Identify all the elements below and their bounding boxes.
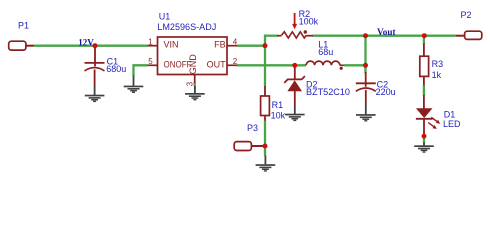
- svg-text:LED: LED: [443, 119, 461, 129]
- U1 pin 1 VIN: [148, 45, 158, 47]
- U1 pin 3 GND: [194, 75, 196, 83]
- wire ONOFF to gnd: [134, 65, 148, 76]
- wire R1 to P3 node: [264, 120, 266, 156]
- svg-text:3: 3: [185, 81, 194, 86]
- svg-text:R1: R1: [272, 100, 284, 110]
- IC U1 LM2596S-ADJ body: [158, 37, 228, 75]
- capacitor C1 680u: [85, 46, 127, 85]
- svg-text:LM2596S-ADJ: LM2596S-ADJ: [157, 22, 216, 32]
- U1 pin 2 OUT: [227, 64, 237, 66]
- LED arrows: [431, 117, 437, 121]
- wire FB node top corner to R2: [264, 35, 278, 37]
- svg-text:U1: U1: [159, 11, 171, 21]
- ground (C1): [94, 85, 96, 95]
- svg-text:220u: 220u: [376, 87, 396, 97]
- resistor R2 100k (trimmer): [277, 9, 319, 38]
- wire FB node vertical down to R1: [264, 35, 266, 87]
- svg-text:OUT: OUT: [207, 60, 227, 70]
- svg-text:Vout: Vout: [377, 27, 396, 37]
- capacitor C2 220u: [356, 72, 396, 104]
- svg-text:68u: 68u: [318, 47, 333, 57]
- node D1-gnd junction: [422, 134, 427, 139]
- wire Vout node down to R3: [423, 36, 425, 45]
- ground (D1): [423, 143, 425, 146]
- port P3: [234, 123, 263, 151]
- wire 12V rail P1 to VIN: [34, 45, 148, 47]
- svg-text:P3: P3: [247, 123, 258, 133]
- svg-text:1k: 1k: [432, 70, 442, 80]
- port P2: [456, 10, 482, 39]
- node Vout-L junction: [363, 33, 368, 38]
- U1 pin 4 FB: [227, 45, 237, 47]
- wire U1 pin3 to gnd: [194, 82, 196, 86]
- svg-text:GND: GND: [188, 54, 198, 75]
- node P3 junction: [263, 144, 268, 149]
- ground (U1 pin3): [194, 86, 196, 93]
- svg-text:D1: D1: [444, 109, 456, 119]
- node OUT-D2 junction: [292, 63, 297, 68]
- ground (D2): [294, 105, 296, 114]
- svg-text:100k: 100k: [299, 16, 319, 26]
- wire R3 to D1: [423, 85, 425, 96]
- wire FB pin to node: [237, 45, 265, 47]
- node 12V junction: [93, 43, 98, 48]
- svg-text:BZT52C10: BZT52C10: [306, 87, 350, 97]
- node Vout-R junction: [422, 33, 427, 38]
- svg-text:680u: 680u: [106, 64, 126, 74]
- ground (C2): [365, 104, 367, 114]
- wire D1 to gnd: [423, 137, 425, 143]
- R2 wiper arrow: [294, 13, 296, 25]
- wire Vout node down to C2: [364, 36, 366, 73]
- svg-text:1: 1: [148, 38, 153, 47]
- svg-text:FB: FB: [214, 40, 226, 50]
- svg-text:R3: R3: [432, 59, 444, 69]
- svg-text:5: 5: [148, 57, 153, 66]
- node FB junction: [263, 43, 268, 48]
- svg-text:P1: P1: [18, 21, 29, 31]
- diode D2 BZT52C10 (zener): [284, 66, 350, 105]
- U1 pin 5 ONOFF: [148, 64, 158, 66]
- svg-text:2: 2: [233, 57, 238, 66]
- resistor R1 10k: [261, 86, 286, 121]
- svg-text:10k: 10k: [271, 111, 286, 121]
- svg-text:VIN: VIN: [164, 40, 179, 50]
- wire OUT to L1: [237, 64, 306, 66]
- svg-text:4: 4: [233, 38, 238, 47]
- ground (P3): [264, 156, 266, 165]
- diode D1 LED: [416, 95, 461, 134]
- ground (U1 pin5): [133, 76, 135, 86]
- svg-text:P2: P2: [461, 10, 472, 20]
- port P1: [9, 21, 34, 50]
- node OUT-C2 junction: [363, 63, 368, 68]
- inductor L1 68u: [306, 39, 344, 70]
- resistor R3 1k: [420, 44, 443, 86]
- svg-text:12V: 12V: [78, 37, 94, 47]
- wire L1 to Vout node: [344, 64, 366, 66]
- wire Vout rail R2 to P2: [313, 35, 456, 37]
